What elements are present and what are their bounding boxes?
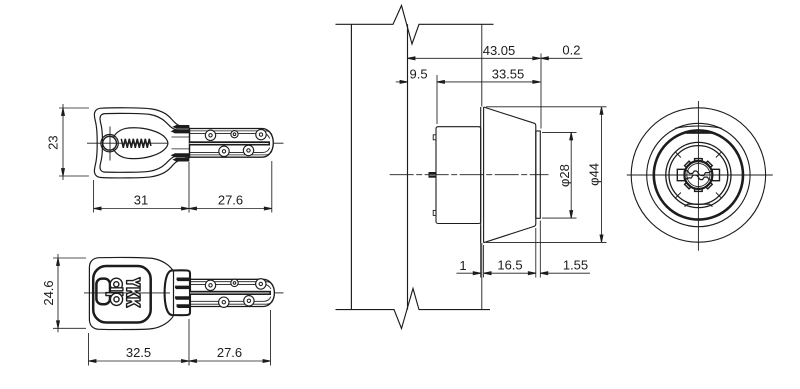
key K1 (MIWA dimple key, top-left)	[87, 108, 284, 178]
front view: bottom flat chord	[685, 204, 713, 206]
section view: cylinder back body	[436, 127, 481, 224]
dimension 0.2	[541, 43, 583, 129]
key K2 dimple B1	[219, 297, 229, 307]
key K1 blade thin line bottom	[190, 151, 273, 155]
svg-text:φ28: φ28	[557, 164, 572, 187]
svg-text:33.55: 33.55	[492, 67, 525, 82]
section view: door panel bottom edge with break	[336, 289, 491, 329]
front view: keyway bracket right	[712, 169, 719, 180]
key K1 neck serration bottom	[171, 154, 189, 157]
key K1 blade center band white split	[190, 142, 269, 145]
key K1 hole inner ring	[103, 136, 117, 150]
section view: flange extension vertical top	[481, 24, 483, 106]
key K2 dimple T2	[231, 279, 238, 286]
front view: outer rim circle	[631, 108, 765, 242]
svg-text:43.05: 43.05	[483, 43, 516, 58]
key K1 head outer outline	[94, 108, 189, 178]
key K1 tip centerline stub	[274, 142, 284, 144]
svg-text:27.6: 27.6	[217, 345, 242, 360]
key K2 collar serration 2	[175, 286, 190, 289]
front view: plug inner chamfer circle	[687, 163, 710, 186]
front view: keyway bracket left	[677, 169, 684, 180]
front view: plug circle	[684, 161, 712, 189]
front view: anti-drill tick marks	[676, 152, 722, 198]
key K2 collar serration 3	[175, 297, 190, 300]
front view: keyway wavy top edge	[685, 171, 713, 176]
key K2 head inner panel	[93, 266, 151, 323]
section view: back body tab bottom	[433, 210, 436, 215]
key K1 dimple B2	[243, 145, 253, 155]
dimension 23 (key K1 height)	[46, 104, 90, 180]
dimension phi44	[486, 107, 607, 243]
key K1 dimple B1	[219, 146, 229, 156]
key K2 dimple T3	[256, 279, 266, 289]
front view: horizontal centerline	[627, 174, 773, 176]
key K2 dimple T1	[205, 280, 215, 290]
key K1 blade groove line bottom	[190, 148, 270, 153]
dimension 9.5 and 33.55	[396, 67, 541, 125]
front view: front cap circle thick	[654, 130, 743, 219]
key K2 blade groove line bottom	[190, 297, 271, 302]
front view: top shallow seam arc	[675, 126, 722, 128]
svg-text:23: 23	[46, 135, 61, 149]
key K2 blade center band	[190, 291, 271, 295]
svg-text:φ44: φ44	[587, 163, 602, 186]
key K2 blade thin line bottom	[190, 301, 273, 305]
svg-text:27.6: 27.6	[218, 193, 243, 208]
svg-text:24.6: 24.6	[41, 280, 56, 305]
front view: vertical centerline	[697, 101, 699, 251]
section view: door surface line left	[350, 24, 352, 309]
key K1 blade outline	[190, 129, 274, 158]
key K1 blade center band	[190, 141, 271, 145]
front view: plug surround ring inner	[669, 146, 728, 205]
front view: plug surround ring outer	[666, 142, 731, 207]
key K1 horizontal centerline	[87, 142, 168, 144]
section view: front cap ring	[536, 131, 541, 218]
key K1 head inner contour	[100, 113, 179, 172]
svg-text:31: 31	[134, 193, 148, 208]
dimension 43.05	[408, 43, 541, 60]
dimension 1 / 16.5 / 1.55	[457, 221, 591, 278]
key K2 horizontal centerline	[84, 292, 170, 294]
section view: back body tab top	[433, 135, 436, 140]
svg-text:9.5: 9.5	[410, 67, 428, 82]
key K2 collar	[165, 270, 190, 315]
front view: top flat bar	[686, 132, 713, 134]
key K2 (YKK ap dimple key, bottom-left)	[84, 257, 284, 329]
key K1 blade thin line top	[190, 131, 273, 135]
key K2 head hole	[96, 279, 110, 305]
svg-text:1: 1	[459, 258, 466, 273]
key K1 hole vertical centerline	[109, 127, 111, 161]
section view: door surface line right	[407, 24, 409, 309]
key K1 MIWA logo zigzag	[121, 139, 151, 148]
section view: flange extension vertical bottom	[481, 243, 483, 310]
key K1 dimple T2	[231, 131, 238, 138]
key K1 hole outer ring	[101, 135, 118, 152]
key K1 egg panel around logo	[113, 128, 168, 159]
key K2 YKKap logo (drawn letters)	[106, 278, 140, 308]
dimension 31 / 27.6 (key K1 lengths)	[94, 161, 272, 213]
front view: plug gear tabs	[685, 159, 713, 192]
svg-text:0.2: 0.2	[562, 43, 580, 58]
key K1 dimple T3	[256, 129, 266, 139]
dimension 24.6 (key K2 height)	[41, 254, 86, 332]
section view: door panel top edge with break	[336, 6, 494, 45]
section view: cam tail	[429, 172, 437, 178]
key K1 neck serration top	[173, 125, 189, 128]
key K2 blade groove line top	[190, 284, 271, 289]
key K1 blade groove line top	[190, 134, 270, 139]
svg-text:32.5: 32.5	[126, 345, 151, 360]
dimension 32.5 / 27.6 (key K2 lengths)	[89, 310, 271, 366]
dimension phi28	[542, 132, 577, 218]
front view: keyway wavy bottom edge	[685, 175, 713, 180]
section view: cylinder centerline	[390, 174, 549, 176]
key K2 blade thin line top	[190, 282, 273, 286]
key K1 dimple T1	[205, 130, 215, 140]
key K2 collar serration 1	[177, 278, 191, 281]
section view: escutcheon cone	[484, 107, 536, 243]
key K2 tip centerline stub	[275, 292, 284, 294]
section view: flange ring lines	[480, 107, 482, 243]
svg-text:1.55: 1.55	[563, 258, 588, 273]
front view: middle circle	[647, 123, 750, 226]
key K2 head outer outline	[89, 257, 173, 329]
key K2 collar serration 4	[177, 305, 191, 308]
key K1 neck line top	[172, 136, 190, 138]
key K2 dimple B2	[244, 296, 254, 306]
key K1 neck line bottom	[172, 148, 190, 150]
svg-text:16.5: 16.5	[497, 258, 522, 273]
key K2 blade outline	[190, 279, 274, 306]
